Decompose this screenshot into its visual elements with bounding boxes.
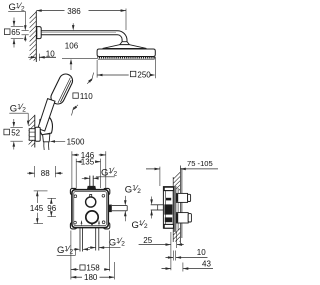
svg-text:G1⁄2: G1⁄2 (101, 166, 117, 179)
spray face with nozzles (98, 58, 155, 60)
valve upper detail (166, 198, 171, 201)
svg-text:10: 10 (197, 248, 206, 257)
right side port (109, 205, 112, 213)
shower arm flange (37, 27, 41, 39)
svg-text:250: 250 (137, 70, 151, 79)
svg-text:88: 88 (41, 169, 50, 178)
svg-text:75 -105: 75 -105 (187, 159, 213, 168)
wall hatching upper (side view) (173, 172, 180, 190)
bracket wall plate (35, 127, 40, 141)
mounting plate (side view) (174, 186, 176, 231)
svg-text:G1⁄2: G1⁄2 (109, 236, 125, 249)
upper control circle (86, 197, 96, 207)
top outlet port (89, 176, 91, 190)
valve center block (164, 204, 172, 214)
valve top cap (164, 187, 173, 190)
lower rear supply stub (176, 213, 188, 223)
dimension 135 (75, 159, 77, 188)
dimension 146 (71, 151, 73, 188)
svg-text:386: 386 (67, 7, 81, 16)
wall line (hand shower) (34, 115, 36, 148)
supply stub behind wall (bracket) (29, 129, 35, 141)
shower arm pipe with elbow (41, 31, 127, 42)
hand shower hose (43, 142, 45, 150)
corner screw holes (74, 195, 77, 198)
valve lower detail (165, 217, 172, 222)
dimension square 250 (96, 60, 98, 78)
hand shower handle (37, 99, 55, 131)
dimension square 65 (4, 29, 10, 35)
small arrows inside box bottom (81, 221, 83, 224)
bottom left inlet tube (79, 228, 81, 252)
svg-text:G1⁄2: G1⁄2 (125, 183, 141, 196)
svg-text:25: 25 (143, 236, 152, 245)
svg-text:65: 65 (11, 28, 20, 37)
hand shower head (49, 72, 75, 106)
svg-text:110: 110 (80, 92, 93, 101)
dimension 180 (113, 262, 115, 280)
svg-text:180: 180 (84, 273, 98, 282)
wall hatching lower (side view) (173, 228, 180, 242)
ball joint cone (120, 42, 130, 45)
extension ticks for G1/2 at pipe (22, 30, 29, 32)
mixer box inner edge (74, 192, 107, 226)
dimension square 158 (70, 231, 72, 280)
valve bottom cap (164, 224, 173, 228)
label 1500 (hose length) (50, 140, 55, 143)
svg-text:43: 43 (202, 259, 211, 268)
hose connector nut (43, 134, 50, 142)
wall line (top left) (35, 11, 37, 62)
svg-text:52: 52 (11, 129, 20, 138)
svg-text:G1⁄2: G1⁄2 (10, 102, 26, 115)
head shower body (97, 49, 155, 57)
valve body (side view) (163, 187, 173, 229)
lower control circle (86, 211, 98, 223)
front outlet stub (side view) (151, 204, 164, 206)
dimension 386 (36, 10, 64, 12)
svg-text:106: 106 (65, 42, 79, 51)
dimension 88 (34, 166, 36, 177)
wall hatching (hand shower) (29, 116, 35, 147)
svg-text:1500: 1500 (67, 138, 85, 147)
mixer box corner tabs (70, 188, 76, 194)
upper rear supply stub (176, 193, 188, 202)
dimension square 110 (hand shower face) (88, 78, 93, 83)
bottom right inlet tube (95, 228, 97, 251)
svg-text:158: 158 (86, 263, 100, 272)
head shower dome (103, 45, 147, 49)
svg-text:G1⁄2: G1⁄2 (132, 218, 148, 231)
wall hatching (top left) (30, 12, 36, 61)
wall bracket holder (40, 118, 53, 135)
extension line for 386 at elbow (125, 9, 127, 31)
svg-text:135: 135 (81, 158, 95, 167)
wall face lines (side view) (172, 177, 174, 242)
mixer box outline (72, 190, 108, 228)
dimension square 52 (4, 129, 10, 135)
svg-text:145: 145 (30, 204, 44, 213)
arm centerline (41, 32, 116, 34)
